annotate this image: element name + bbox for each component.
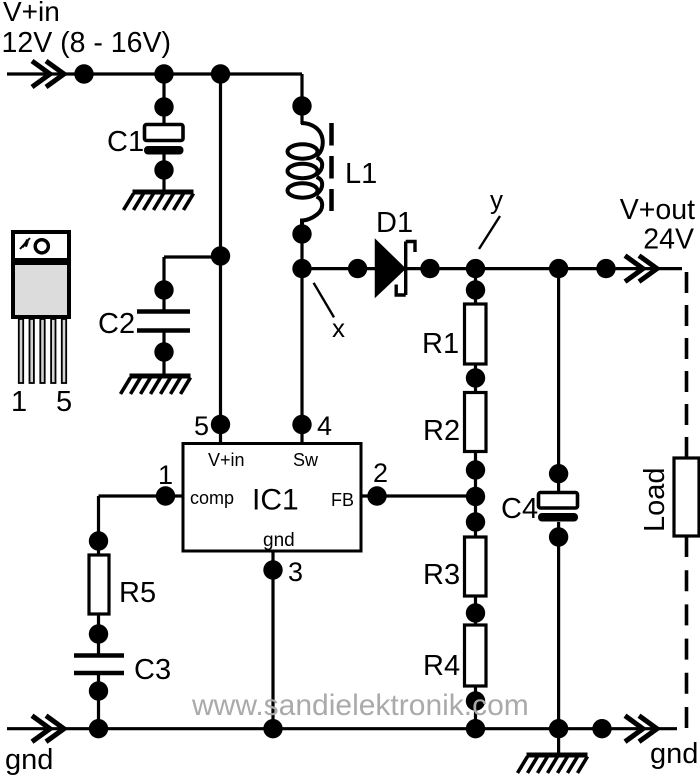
capacitor C1 xyxy=(145,125,184,155)
Load dashed wire top xyxy=(685,272,689,458)
svg-text:1: 1 xyxy=(11,386,27,418)
svg-text:C2: C2 xyxy=(98,308,135,340)
output arrow V+out xyxy=(625,256,657,282)
TO-220 package body xyxy=(13,263,69,317)
pin 1 wire xyxy=(99,494,184,497)
wire comp branch R5/C3 xyxy=(97,496,100,729)
Load resistor box xyxy=(674,458,699,536)
node below L1 xyxy=(292,224,311,243)
svg-text:www.sandielektronik.com: www.sandielektronik.com xyxy=(191,689,529,722)
svg-text:IC1: IC1 xyxy=(252,484,299,517)
svg-text:R5: R5 xyxy=(119,577,156,609)
node C3 on rail xyxy=(89,719,108,738)
node C2 tap xyxy=(211,246,230,265)
node above L1 xyxy=(292,96,311,115)
svg-text:12V (8 - 16V): 12V (8 - 16V) xyxy=(2,27,172,59)
svg-text:Load: Load xyxy=(639,467,671,532)
node above R3 xyxy=(466,512,485,531)
inductor L1 xyxy=(288,123,323,226)
node C4 on rail xyxy=(549,719,568,738)
svg-text:gnd: gnd xyxy=(5,744,53,776)
svg-text:x: x xyxy=(332,313,345,343)
input arrow gnd left xyxy=(32,716,64,742)
svg-text:V+in: V+in xyxy=(208,450,245,470)
svg-text:Sw: Sw xyxy=(293,450,319,470)
wire R chain vertical xyxy=(474,269,477,729)
core of L1 (dashed) xyxy=(329,123,334,211)
ground under C2 xyxy=(121,376,191,394)
svg-text:D1: D1 xyxy=(376,207,413,239)
node R4 on rail xyxy=(466,719,485,738)
label y with leader line xyxy=(479,185,503,250)
svg-text:comp: comp xyxy=(190,488,234,508)
ground under C4 xyxy=(518,755,588,773)
svg-text:1: 1 xyxy=(158,460,173,490)
wire C2 horizontal xyxy=(164,257,221,374)
node before diode xyxy=(348,259,367,278)
node y junction xyxy=(466,259,485,278)
svg-text:R1: R1 xyxy=(422,328,459,360)
diode D1 (schottky) xyxy=(376,240,416,297)
svg-text:gnd: gnd xyxy=(263,530,295,551)
svg-text:V+out: V+out xyxy=(620,194,695,226)
wire bottom ground rail xyxy=(7,727,677,730)
svg-text:R4: R4 xyxy=(423,650,460,682)
TO-220 package tab xyxy=(13,232,69,260)
svg-text:5: 5 xyxy=(56,386,72,418)
node output gnd junction xyxy=(592,719,611,738)
pin 5 dot xyxy=(211,415,230,434)
resistor R2 xyxy=(465,393,487,452)
node after diode xyxy=(420,259,439,278)
wire L1 branch top xyxy=(300,74,303,124)
pin 4 dot xyxy=(292,415,311,434)
node R3-R4 xyxy=(466,603,485,622)
node below R2 xyxy=(466,460,485,479)
svg-text:L1: L1 xyxy=(345,158,377,190)
node above C1 xyxy=(154,97,173,116)
resistor R1 xyxy=(465,304,487,364)
node C1 tap on rail xyxy=(154,64,173,83)
wire C4 branch xyxy=(557,269,560,729)
node below R4 xyxy=(466,691,485,710)
wire pin5 vertical line xyxy=(219,74,222,443)
capacitor C3 xyxy=(74,656,124,674)
capacitor C2 xyxy=(137,312,190,331)
svg-text:5: 5 xyxy=(194,411,209,441)
input arrow V+in xyxy=(32,61,64,87)
label x with leader line xyxy=(314,283,345,343)
node below C1 xyxy=(154,160,173,179)
svg-text:gnd: gnd xyxy=(650,738,698,770)
wire C1 branch xyxy=(162,74,165,191)
svg-text:2: 2 xyxy=(373,458,388,488)
node above R1 xyxy=(466,280,485,299)
svg-text:R3: R3 xyxy=(423,559,460,591)
svg-text:FB: FB xyxy=(331,490,354,510)
wire L1 to node x and pin 4 xyxy=(300,221,303,443)
wire output rail xyxy=(407,267,682,270)
svg-text:V+in: V+in xyxy=(3,0,60,27)
TO-220 pins xyxy=(19,319,66,383)
svg-text:C1: C1 xyxy=(107,126,144,158)
node pin3 on rail xyxy=(263,719,282,738)
pin 3 wire gnd xyxy=(271,551,274,729)
pin 3 dot xyxy=(263,560,282,579)
node output junction xyxy=(596,259,615,278)
node below C2 xyxy=(154,342,173,361)
svg-text:24V: 24V xyxy=(643,224,694,256)
pin 1 dot xyxy=(156,486,175,505)
IC1 box xyxy=(183,444,361,552)
capacitor C4 xyxy=(539,493,578,522)
node R1-R2 xyxy=(466,368,485,387)
svg-text:C4: C4 xyxy=(501,493,538,525)
node C4 tap on rail xyxy=(549,259,568,278)
wire C4 ground stub xyxy=(557,729,560,753)
svg-text:3: 3 xyxy=(288,557,303,587)
svg-text:4: 4 xyxy=(317,411,332,441)
wire top input rail xyxy=(7,72,302,75)
pin 2 dot xyxy=(367,486,386,505)
node above C4 xyxy=(549,464,568,483)
resistor R4 xyxy=(465,625,487,686)
output arrow gnd right xyxy=(625,716,657,742)
node x junction xyxy=(292,259,311,278)
pin 2 wire FB xyxy=(361,494,476,497)
ground under C1 xyxy=(124,192,194,210)
node pin5 tap on rail xyxy=(211,64,230,83)
node FB junction xyxy=(466,487,485,506)
node above R5 xyxy=(89,531,108,550)
node input junction xyxy=(74,64,93,83)
wire node x to diode xyxy=(302,267,375,270)
node R5-C3 xyxy=(89,624,108,643)
resistor R3 xyxy=(465,537,487,596)
Load dashed wire bottom xyxy=(685,536,689,728)
node above C2 xyxy=(154,280,173,299)
svg-text:R2: R2 xyxy=(423,415,460,447)
svg-text:y: y xyxy=(490,185,503,215)
node below C3 xyxy=(89,681,108,700)
resistor R5 xyxy=(89,555,109,614)
node below C4 xyxy=(549,527,568,546)
svg-text:C3: C3 xyxy=(134,654,171,686)
